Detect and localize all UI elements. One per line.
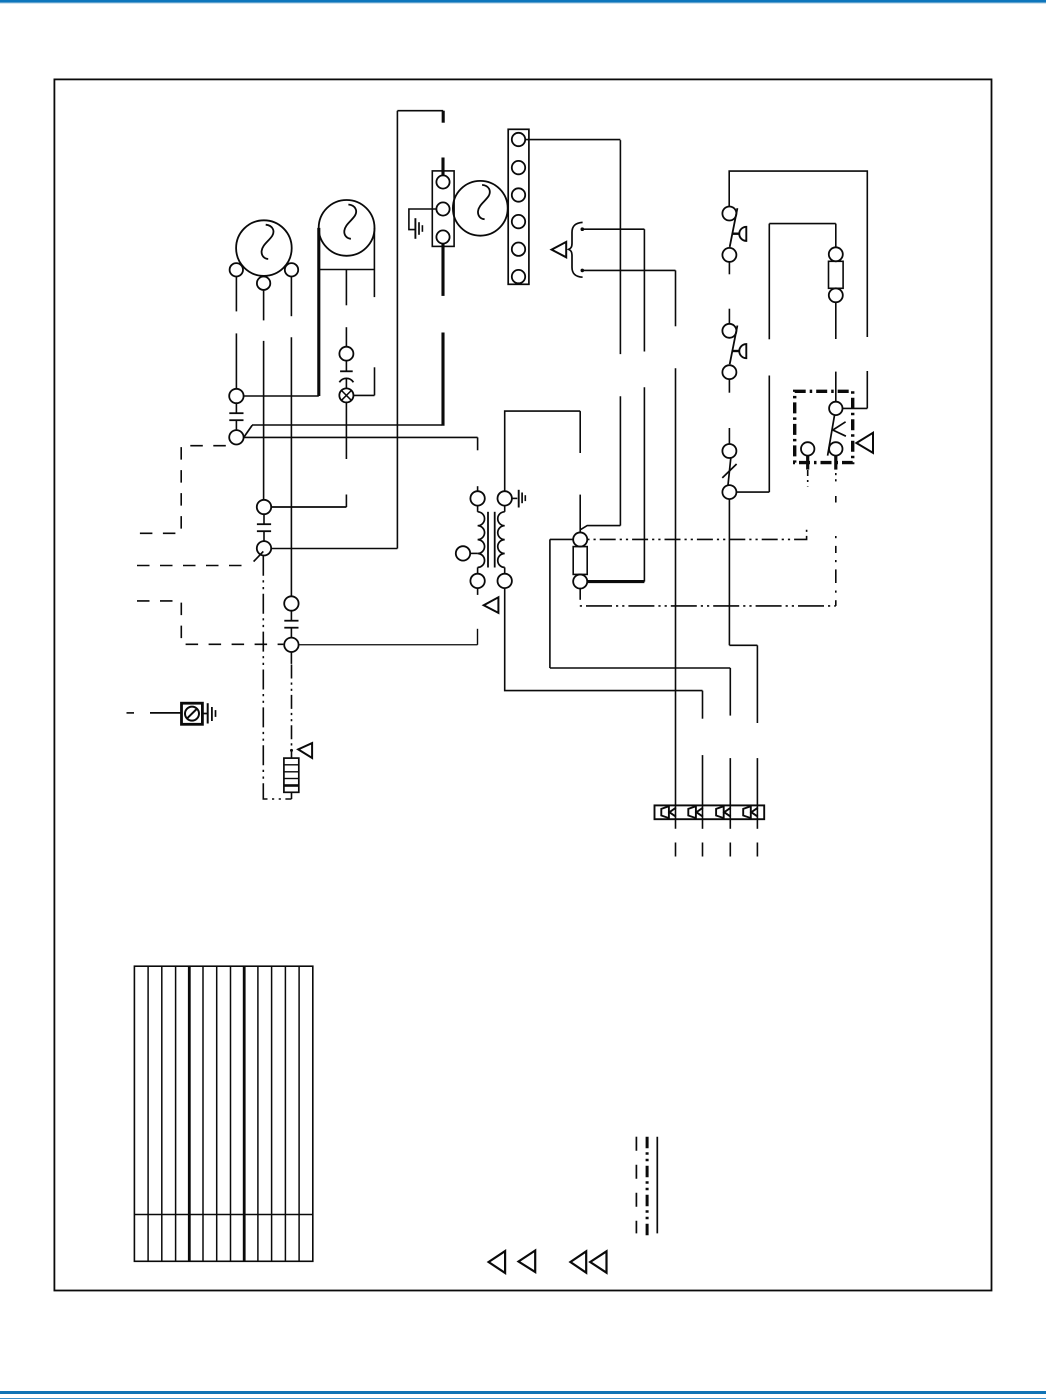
lug lead dash [127, 712, 135, 714]
wire top corner [397, 110, 443, 112]
wire to fuse F1 [835, 224, 837, 248]
wire transformer top [505, 411, 581, 491]
wire C2 bottom [271, 548, 397, 550]
wire C2 top [271, 506, 346, 508]
wire riser x620 [619, 140, 621, 525]
wire lamp down [271, 403, 346, 508]
PL1 pin 2 [688, 806, 703, 818]
motor M1 terminal S [257, 277, 270, 290]
ground G2 [519, 490, 526, 508]
marker triangle G [570, 1251, 586, 1272]
contactor contact C3 [284, 596, 298, 652]
TB1 bold out (bold broken) [441, 244, 444, 426]
marker triangle F [519, 1251, 536, 1273]
wire lamp to right leg [354, 367, 375, 395]
wire M1-S down [263, 290, 265, 500]
wire C1 arm [244, 425, 442, 437]
LV line heater to C3 [291, 665, 293, 750]
ground lug symbol [185, 707, 199, 721]
plug connector PL1 [655, 805, 765, 819]
wire transformer to F2 [550, 539, 573, 668]
wire C3 bottom right [299, 629, 478, 645]
terminal strip TB2 [508, 129, 529, 284]
legend solid line [656, 1137, 658, 1234]
fuse F1 [829, 247, 844, 302]
heater HTR [284, 758, 299, 792]
wire M2 centre down [345, 270, 347, 347]
legend centre line (bold) [646, 1137, 649, 1236]
wire main vertical [396, 111, 398, 549]
bottom blue rule thick [0, 1391, 1046, 1394]
wire DFT chain down [729, 499, 757, 645]
wire M2 bottom connector [319, 269, 375, 271]
PL1 pin 4 [743, 806, 758, 818]
TRAN tap terminal [456, 546, 478, 560]
wire fuse F2 feed [579, 411, 581, 532]
wire bold stub top [442, 111, 445, 123]
transformer TRAN secondary terminal top [498, 491, 512, 505]
wire F2 stub [579, 589, 581, 600]
fuse F2 top terminal [573, 532, 587, 546]
ground wire at TRAN [512, 497, 517, 499]
wire brace lower [582, 269, 675, 271]
marker triangle B [856, 433, 873, 453]
TRAN primary terminal bottom [470, 574, 484, 595]
wire HPS-LPS [728, 262, 730, 324]
TRAN primary coil [478, 506, 485, 574]
relay tail left [806, 456, 809, 487]
wire C1 top [244, 395, 319, 397]
diagram border frame [54, 79, 991, 1290]
relay contact common [829, 402, 842, 415]
wire F1 down [835, 302, 837, 401]
lug lead [150, 712, 181, 714]
TB1 terminal 3 [436, 230, 449, 243]
wire riser x769 [768, 224, 770, 493]
fuse F2 [573, 547, 587, 575]
marker triangle C [484, 597, 499, 613]
wire M1-R down [290, 277, 292, 597]
wire M2 right leg [373, 228, 375, 297]
node dot heater [290, 749, 293, 752]
wire LPS down [728, 379, 730, 444]
PL1 leads below [676, 843, 758, 857]
relay tail right [834, 456, 837, 606]
contact K1 circle [339, 347, 353, 361]
brace [569, 222, 583, 277]
wire relay to x867 [843, 407, 868, 409]
node dot lower [581, 269, 585, 273]
relay arm chevron [833, 422, 846, 436]
TRAN secondary coil [498, 506, 505, 574]
ground G1 [415, 218, 422, 239]
TB1 terminal 2 [436, 202, 449, 215]
PL1 pin 3 [716, 806, 731, 818]
wire common run [550, 667, 730, 669]
marker triangle E [489, 1251, 506, 1273]
pressure switch HPS [722, 207, 746, 262]
motor M3 (blower) [453, 181, 508, 236]
legend dashed line [635, 1137, 637, 1234]
LV line to fuse bottom [580, 605, 836, 607]
TB2 terminals 1-6 [512, 133, 525, 283]
wire riser x675 [675, 270, 677, 828]
wire M1-C down [235, 277, 237, 389]
TB1 bold feed [441, 158, 444, 176]
dashed field line 2 [137, 565, 251, 567]
marker triangle A [552, 242, 567, 257]
contactor contact C2 [257, 500, 271, 556]
motor M1 terminal C [230, 263, 243, 276]
legend table [134, 966, 312, 1261]
wire TRAN secondary down [505, 588, 703, 691]
relay contact NC [801, 442, 814, 455]
thermostat switch DFT [722, 444, 736, 499]
contact K1 moving arc [339, 378, 353, 389]
terminal block TB1 [432, 171, 454, 247]
heater feed [291, 750, 293, 758]
relay DR box [795, 391, 853, 462]
heater bottom stub [291, 792, 293, 799]
wire riser x644 [643, 229, 645, 581]
relay contact NO [829, 442, 842, 455]
dashed field line 3 [137, 601, 283, 644]
lug ground stub [203, 713, 208, 715]
wire drop x757 [756, 645, 758, 829]
bottom blue rule thin [0, 1398, 1046, 1399]
LV line to fuse top [587, 528, 806, 539]
wire brace upper [582, 228, 644, 230]
motor M1 terminal R [285, 263, 298, 276]
wire top right loop [729, 171, 867, 337]
motor M2 (fan) [319, 200, 375, 256]
LV line from C2 [263, 556, 291, 799]
top blue rule [0, 0, 1046, 4]
wire F2 bottom (bold) [587, 580, 644, 583]
pressure switch LPS [722, 324, 746, 379]
marker triangle D [298, 743, 312, 758]
dashed field line 1 [140, 446, 232, 534]
wire x867 lower [866, 371, 868, 408]
C2 slash [254, 551, 264, 561]
wire M2 left leg (bold) [317, 228, 320, 396]
TRAN secondary terminal bottom [498, 574, 512, 588]
wire TB2-1 to right [525, 139, 620, 141]
wire C3 stub down [290, 652, 292, 664]
wire drop x702 [702, 691, 704, 829]
PL1 pin 1 [661, 806, 676, 818]
indicator lamp LT [339, 388, 353, 402]
TB1 terminal 1 [436, 175, 449, 188]
contactor contact C1 [229, 389, 243, 445]
fuse F2 bottom terminal [573, 574, 587, 588]
TRAN core [488, 512, 495, 568]
transformer TRAN primary terminal top [470, 486, 484, 505]
ground G3 [208, 703, 216, 723]
marker triangle H [590, 1251, 606, 1272]
node dot upper [581, 227, 585, 231]
ground lug box [182, 703, 203, 724]
contact K1 fixed plate [340, 361, 353, 372]
wire loop top [769, 223, 836, 225]
wire C1 lower out [244, 437, 478, 450]
relay contact arm [828, 415, 835, 455]
ground wire from TB1-2 [409, 209, 437, 230]
wire F2 jog [580, 526, 620, 530]
motor M1 (compressor) [236, 220, 292, 276]
wire DFT to riser [736, 491, 769, 493]
wire drop x730 [729, 668, 731, 829]
